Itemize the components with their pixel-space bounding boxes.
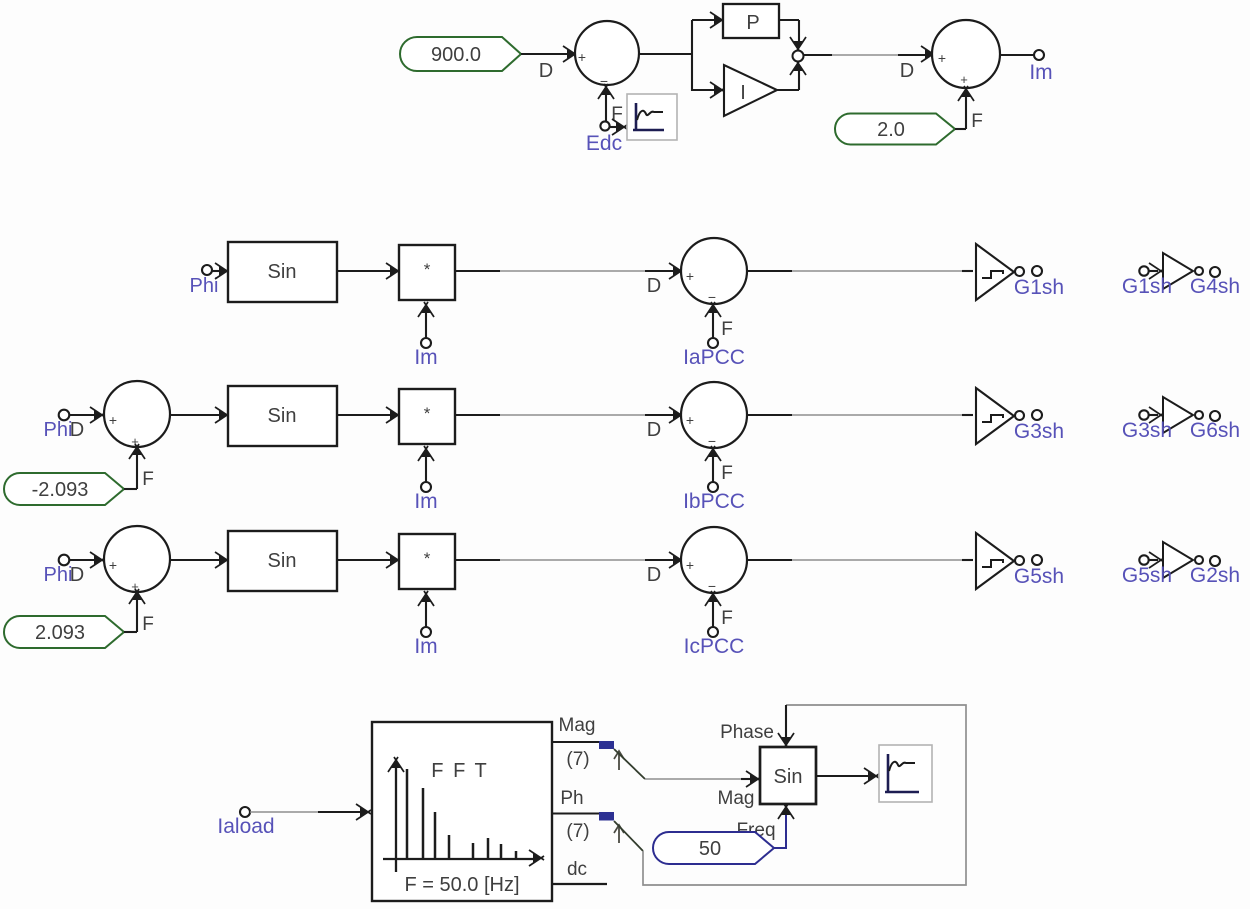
svg-text:F: F (142, 614, 154, 635)
svg-text:Sin: Sin (268, 550, 297, 572)
wire Sin output to plot channel (816, 768, 879, 784)
label F input of current summer (phase a) (721, 319, 733, 340)
phase-shift summer (phase c) (104, 526, 170, 594)
node Phi input (phase a) (202, 265, 212, 275)
svg-text:900.0: 900.0 (431, 44, 481, 66)
svg-text:(7): (7) (566, 821, 589, 842)
label Freq input (736, 820, 775, 841)
svg-text:+: + (109, 412, 117, 428)
wire G1sh node to inverter (1149, 263, 1164, 279)
constant -2.093 (4, 473, 124, 505)
node Im output (1034, 50, 1044, 60)
wire Im to multiplier (phase b) (418, 446, 434, 482)
wire Edc feedback into summer U1 (598, 84, 614, 121)
node G5sh inverter input (1139, 555, 1148, 564)
wire Sin to multiplier (phase b) (337, 407, 401, 423)
wire Phi to left summer (phase b) (69, 407, 105, 423)
svg-text:F: F (971, 111, 983, 132)
FFT spectrum vertical axis (388, 757, 404, 872)
wire Ph tap routed loop to Phase input (614, 705, 966, 885)
Ph data tap (599, 812, 614, 821)
svg-text:*: * (424, 404, 431, 423)
node Im (phase b) (421, 482, 431, 492)
svg-text:Edc: Edc (586, 132, 622, 155)
comparator output port circles (phase b) (1015, 410, 1042, 420)
wire G3sh node to inverter (1149, 407, 1164, 423)
label Mag output (559, 715, 596, 736)
label D input of summer U1 (539, 60, 553, 82)
node IaPCC (708, 338, 718, 348)
FFT block F1 (372, 722, 552, 901)
wire 900.0 to summer (521, 53, 570, 55)
svg-text:*: * (424, 260, 431, 279)
svg-text:Sin: Sin (774, 766, 803, 788)
label Im (phase c) (414, 635, 437, 658)
svg-text:D: D (900, 60, 914, 82)
phase-shift summer (phase b) (104, 381, 170, 449)
Sin function block (phase c) (228, 531, 337, 591)
node Iaload (240, 807, 250, 817)
label Im (phase b) (414, 490, 437, 513)
wire IaPCC to F input of summer (705, 302, 721, 338)
plot output channel box (Sin) (879, 745, 932, 802)
Mag data tap (599, 741, 614, 749)
logic inverter (phase b) (1163, 397, 1193, 433)
PI summing junction node (793, 51, 804, 62)
label F input of left summer (phase c) (142, 614, 154, 635)
multiplier block (phase a) (399, 245, 455, 300)
arrow into summer U1 (563, 46, 578, 62)
label F F T (431, 760, 488, 782)
label dc output (567, 859, 587, 880)
inverter output port circles (phase c) (1195, 556, 1220, 566)
svg-text:F: F (721, 608, 733, 629)
plot output channel box (Edc) (627, 94, 677, 140)
logic inverter (phase a) (1163, 253, 1193, 289)
svg-text:Im: Im (414, 346, 437, 369)
Sin oscillator block (760, 747, 816, 804)
label Edc (586, 132, 622, 155)
hysteresis comparator (phase c) (976, 533, 1014, 589)
label F input of summer U1 (611, 104, 623, 125)
current summer (phase b) (681, 382, 747, 449)
wire constant -2.093 to F input (124, 444, 145, 489)
array tap arrow (Ph) (614, 825, 624, 843)
svg-text:G5sh: G5sh (1014, 565, 1064, 588)
label Ph output (560, 788, 583, 809)
label Mag input (718, 788, 755, 809)
svg-text:D: D (70, 419, 84, 441)
svg-text:Phase: Phase (720, 722, 774, 743)
svg-text:+: + (109, 557, 117, 573)
svg-text:D: D (647, 419, 661, 441)
svg-text:Sin: Sin (268, 405, 297, 427)
multiplier block (phase c) (399, 534, 455, 589)
comparator output port circles (phase c) (1015, 555, 1042, 565)
label G1sh at inverter input (1122, 275, 1172, 298)
svg-text:I: I (740, 82, 746, 104)
comparator output port circles (phase a) (1015, 266, 1042, 276)
node Phi input (phase b) (59, 410, 70, 421)
label G5sh at inverter input (1122, 564, 1172, 587)
node IcPCC (708, 627, 718, 637)
svg-text:Im: Im (1029, 61, 1052, 84)
wire Im to multiplier (phase a) (418, 302, 434, 338)
wire multiplier to current summer (phase a) (455, 263, 684, 279)
wire left summer to Sin block (phase b) (170, 407, 230, 423)
label G3sh comparator output (1014, 420, 1064, 443)
svg-text:Phi: Phi (44, 564, 73, 586)
svg-text:+: + (960, 72, 968, 87)
svg-text:+: + (686, 268, 694, 284)
label F input of current summer (phase b) (721, 463, 733, 484)
node G3sh inverter input (1139, 410, 1148, 419)
svg-text:50: 50 (699, 838, 721, 860)
constant 50 (653, 832, 774, 864)
node Im (phase a) (421, 338, 431, 348)
FFT Ph output stub (552, 812, 600, 814)
node IbPCC (708, 482, 718, 492)
svg-text:G2sh: G2sh (1190, 564, 1240, 587)
multiplier block (phase b) (399, 389, 455, 444)
label G5sh comparator output (1014, 565, 1064, 588)
node G1sh inverter input (1139, 266, 1148, 275)
label Phi (phase c) (44, 564, 73, 586)
label (7) Ph dimension (566, 821, 589, 842)
label G6sh inverter output (1190, 419, 1240, 442)
svg-text:D: D (647, 564, 661, 586)
label Im (1029, 61, 1052, 84)
wire Sin to multiplier (phase a) (337, 263, 401, 279)
hysteresis comparator (phase b) (976, 388, 1014, 444)
wire summer to hysteresis comparator (phase b) (747, 414, 973, 416)
summer U1 (Vdc error) (575, 21, 639, 89)
label D input of current summer (phase c) (647, 564, 661, 586)
wire G5sh node to inverter (1149, 552, 1164, 568)
svg-text:Mag: Mag (559, 715, 596, 736)
wire Phi to left summer (phase c) (69, 552, 105, 568)
label F input of left summer (phase b) (142, 469, 154, 490)
label F input of summer U2 (971, 111, 983, 132)
wire PI junction to summer U2 (804, 46, 936, 62)
wire constant 2.093 to F input (124, 589, 145, 632)
hysteresis comparator (phase a) (976, 244, 1014, 300)
svg-text:G4sh: G4sh (1190, 275, 1240, 298)
svg-text:Sin: Sin (268, 261, 297, 283)
svg-text:+: + (686, 557, 694, 573)
node Phi input (phase c) (59, 555, 70, 566)
label G4sh inverter output (1190, 275, 1240, 298)
inverter output port circles (phase b) (1195, 411, 1220, 421)
label Phi (phase a) (190, 275, 219, 297)
svg-text:G3sh: G3sh (1122, 419, 1172, 442)
wire multiplier to current summer (phase b) (455, 407, 684, 423)
svg-text:2.093: 2.093 (35, 622, 85, 644)
logic inverter (phase c) (1163, 542, 1193, 578)
svg-text:(7): (7) (566, 749, 589, 770)
label F input of current summer (phase c) (721, 608, 733, 629)
current summer (phase c) (681, 527, 747, 594)
wire Iaload to FFT block (250, 804, 371, 820)
svg-text:+: + (578, 49, 586, 65)
wire multiplier to current summer (phase c) (455, 552, 684, 568)
svg-text:F = 50.0 [Hz]: F = 50.0 [Hz] (404, 874, 519, 896)
svg-text:IcPCC: IcPCC (684, 635, 745, 658)
wire Sin to multiplier (phase c) (337, 552, 401, 568)
svg-text:G1sh: G1sh (1014, 276, 1064, 299)
svg-text:Im: Im (414, 635, 437, 658)
wire summer to hysteresis comparator (phase c) (747, 559, 973, 561)
wire Im to multiplier (phase c) (418, 591, 434, 627)
P block of PI controller (723, 4, 779, 38)
svg-text:Iaload: Iaload (217, 815, 274, 838)
svg-text:G3sh: G3sh (1014, 420, 1064, 443)
svg-text:P: P (746, 12, 759, 34)
FFT spectrum bars (407, 769, 516, 859)
label D input of left summer (phase b) (70, 419, 84, 441)
label Im (phase a) (414, 346, 437, 369)
wire summer to hysteresis comparator (phase a) (747, 270, 973, 272)
label D input of left summer (phase c) (70, 564, 84, 586)
svg-text:IaPCC: IaPCC (683, 346, 745, 369)
label Iaload (217, 815, 274, 838)
label (7) Mag dimension (566, 749, 589, 770)
wire branch to I block (692, 82, 725, 98)
svg-text:Mag: Mag (718, 788, 755, 809)
svg-text:F: F (721, 319, 733, 340)
wire left summer to Sin block (phase c) (170, 552, 230, 568)
svg-text:IbPCC: IbPCC (683, 490, 745, 513)
constant 2.093 (4, 616, 124, 648)
svg-text:F: F (721, 463, 733, 484)
svg-text:-2.093: -2.093 (32, 479, 89, 501)
constant 900.0 (400, 37, 521, 71)
array tap arrow (Mag) (614, 751, 624, 770)
svg-text:2.0: 2.0 (877, 119, 905, 141)
Sin function block (phase b) (228, 386, 337, 446)
label D input of current summer (phase a) (647, 275, 661, 297)
svg-text:D: D (70, 564, 84, 586)
label Phi (phase b) (44, 419, 73, 441)
Sin function block (phase a) (228, 242, 337, 302)
svg-text:+: + (938, 50, 946, 66)
wire Edc node to plot channel (610, 119, 627, 135)
I block (integrator) of PI controller (724, 65, 777, 116)
node Edc (600, 121, 609, 130)
svg-text:D: D (647, 275, 661, 297)
svg-text:F F T: F F T (431, 760, 488, 782)
wire 2.0 to F input of summer U2 (955, 86, 974, 129)
label D input of current summer (phase b) (647, 419, 661, 441)
label G2sh inverter output (1190, 564, 1240, 587)
FFT spectrum horizontal axis (383, 850, 544, 866)
summer U2 (Im magnitude) (932, 20, 1000, 88)
wire branch to P block (692, 12, 725, 28)
wire IcPCC to F input of summer (705, 591, 721, 627)
svg-text:G5sh: G5sh (1122, 564, 1172, 587)
FFT dc output stub (552, 883, 607, 885)
svg-text:G1sh: G1sh (1122, 275, 1172, 298)
current summer (phase a) (681, 238, 747, 305)
label F = 50.0 [Hz] (404, 874, 519, 896)
svg-text:G6sh: G6sh (1190, 419, 1240, 442)
label G1sh comparator output (1014, 276, 1064, 299)
svg-text:D: D (539, 60, 553, 82)
svg-text:*: * (424, 549, 431, 568)
svg-text:Ph: Ph (560, 788, 583, 809)
label Phase input (720, 722, 774, 743)
constant 2.0 (835, 114, 955, 145)
svg-text:Im: Im (414, 490, 437, 513)
svg-text:F: F (142, 469, 154, 490)
svg-text:+: + (686, 412, 694, 428)
wire summer U2 to Im node (1000, 54, 1034, 56)
svg-text:Phi: Phi (190, 275, 219, 297)
wire 50 to Freq input (774, 804, 794, 848)
label IaPCC (683, 346, 745, 369)
label IbPCC (683, 490, 745, 513)
label D input of summer U2 (900, 60, 914, 82)
label G3sh at inverter input (1122, 419, 1172, 442)
svg-text:dc: dc (567, 859, 587, 880)
svg-text:Phi: Phi (44, 419, 73, 441)
wire I block to PI junction (777, 60, 806, 90)
wire IbPCC to F input of summer (705, 446, 721, 482)
wire summer U1 to PI branch (639, 20, 692, 91)
wire P block to PI junction (779, 20, 806, 52)
wire Mag tap to Sin Mag input (614, 749, 761, 787)
inverter output port circles (phase a) (1195, 267, 1220, 277)
label IcPCC (684, 635, 745, 658)
FFT Mag output stub (552, 741, 600, 743)
node Im (phase c) (421, 627, 431, 637)
wire Phi to Sin block (phase a) (212, 263, 230, 279)
